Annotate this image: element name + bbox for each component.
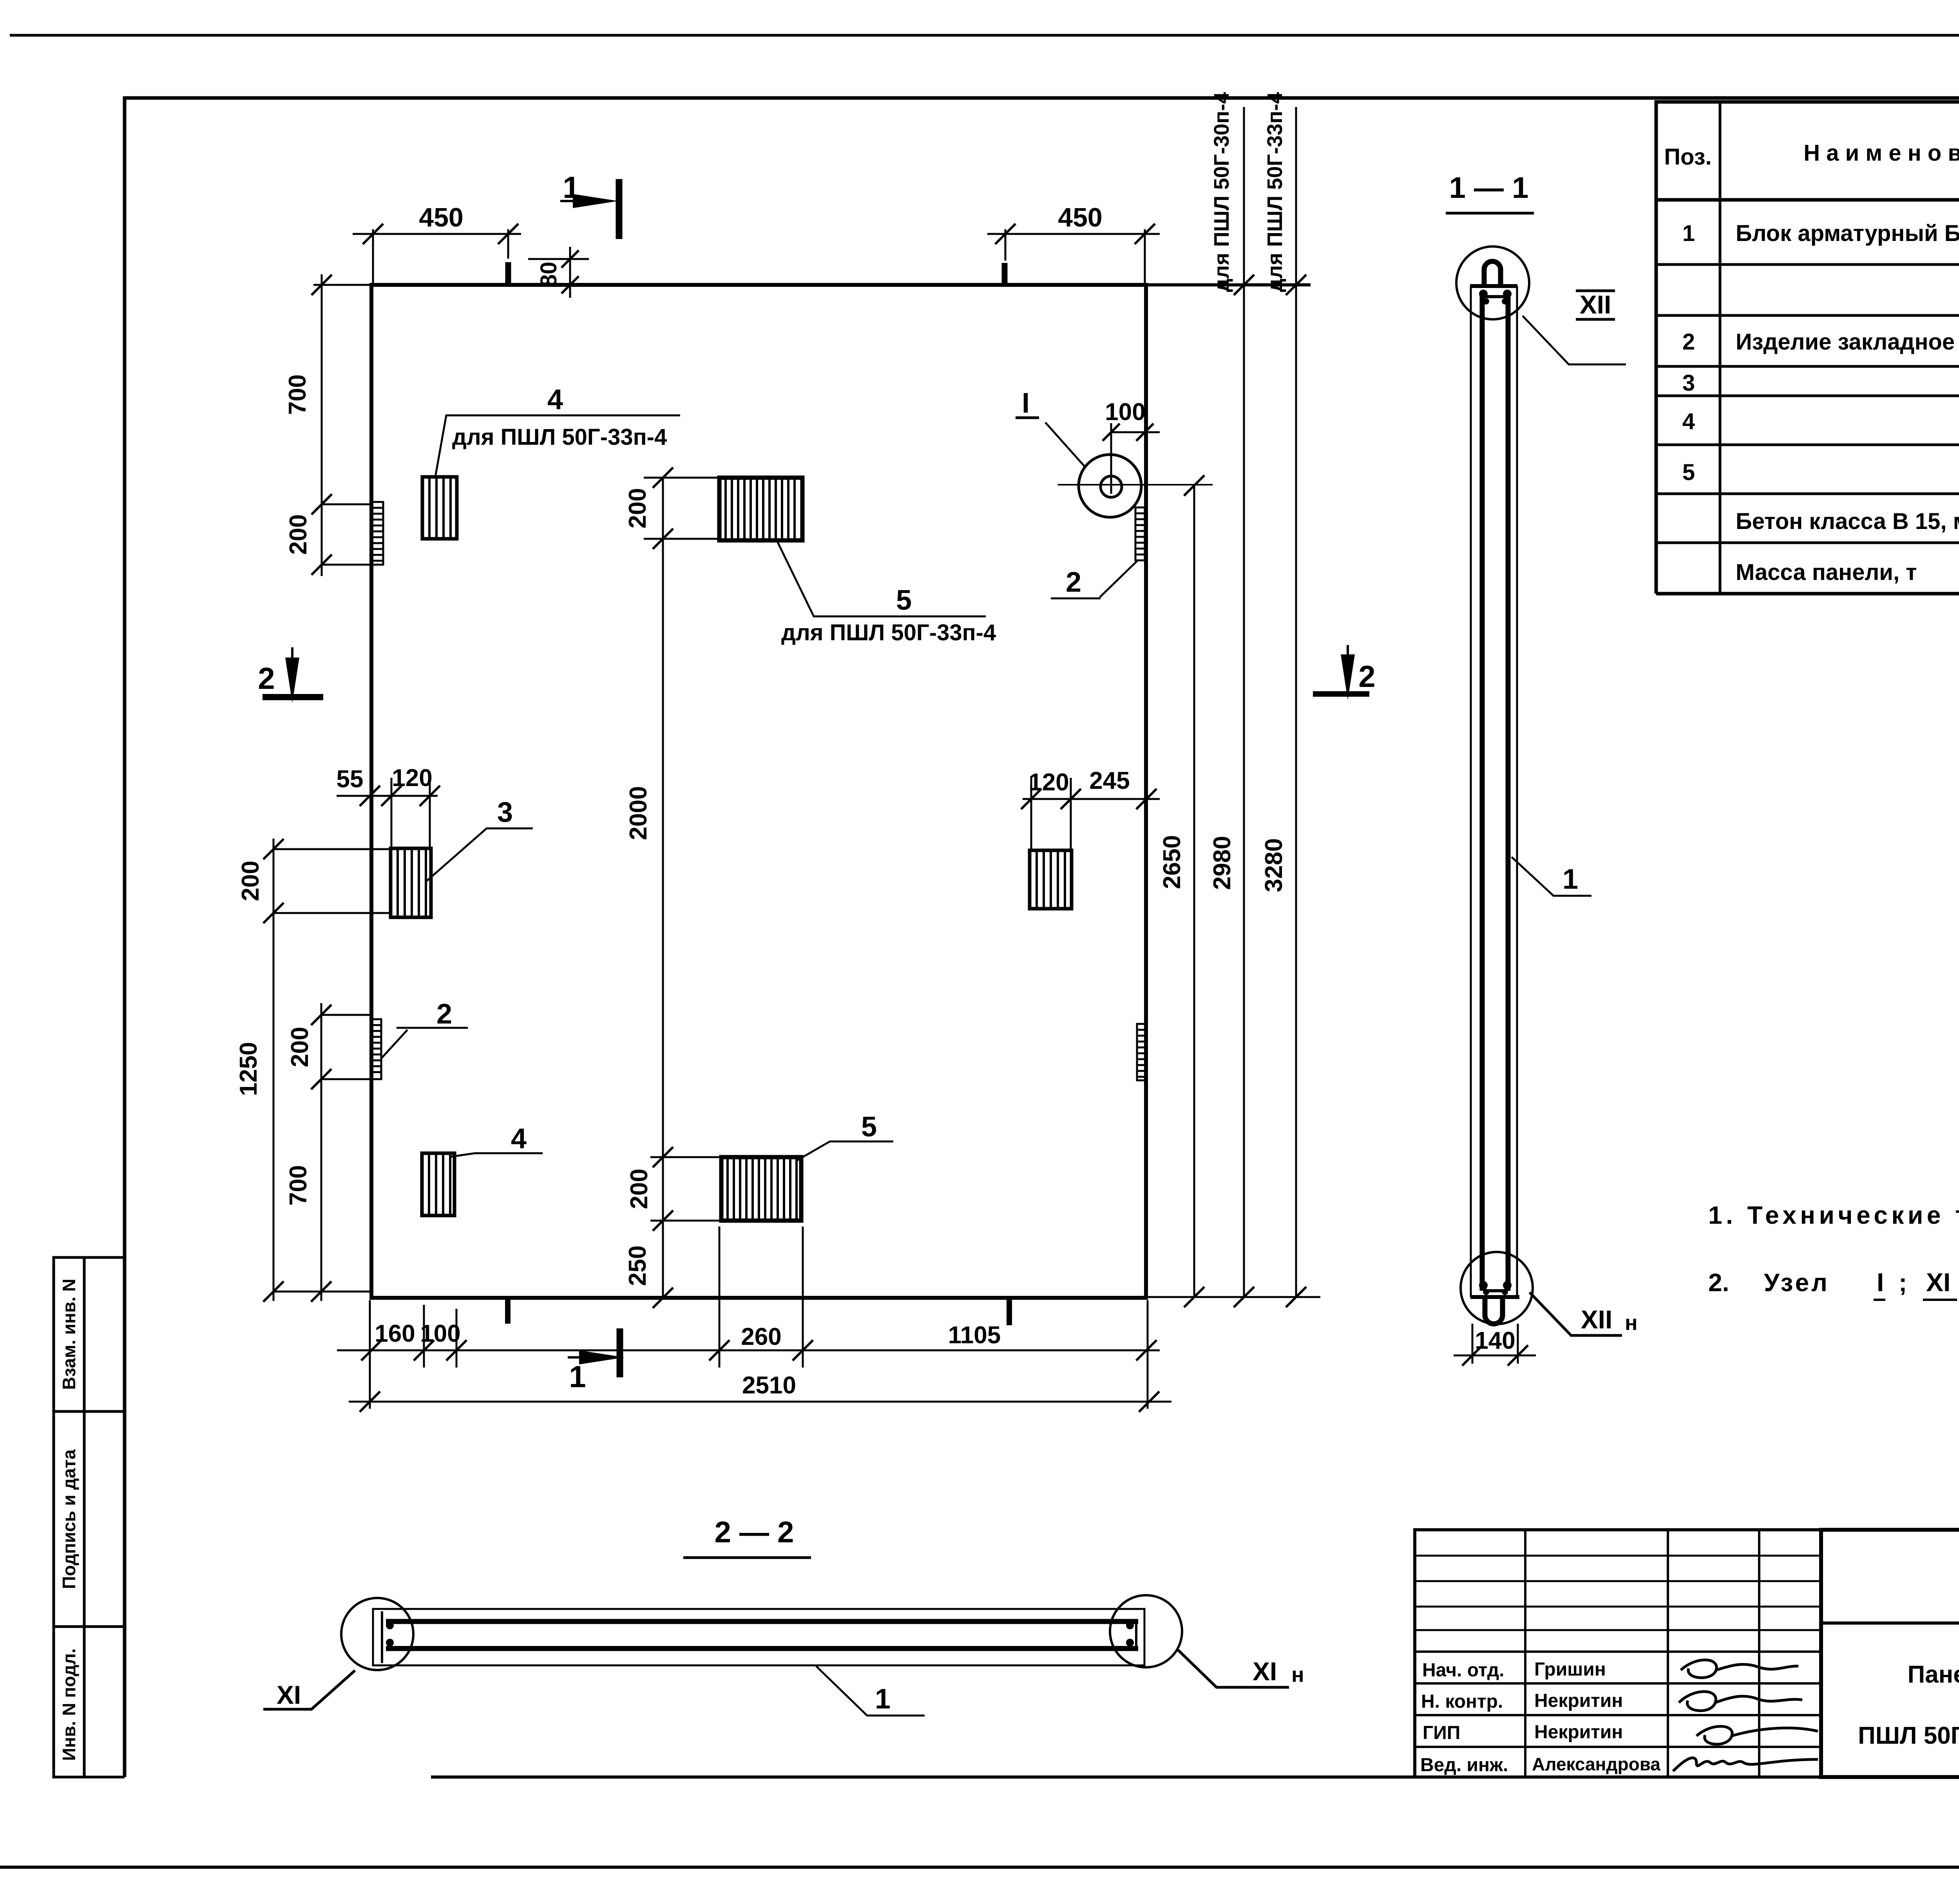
embedded plate MH1 strip (upper right edge, poz.2) (1135, 507, 1145, 560)
embedded plate MH4 (upper left, poz.4) (422, 477, 457, 539)
svg-text:200: 200 (286, 1027, 313, 1067)
svg-text:Нач. отд.: Нач. отд. (1422, 1660, 1505, 1681)
svg-text:4: 4 (1682, 409, 1695, 434)
lifting loop mark top-right (1002, 263, 1008, 285)
svg-text:Подпись и дата: Подпись и дата (59, 1449, 79, 1589)
svg-text:Изделие закладное МН 1: Изделие закладное МН 1 (1736, 329, 1959, 355)
svg-text:200: 200 (285, 514, 312, 554)
dimension 450 right, top (987, 233, 1160, 235)
svg-text:700: 700 (284, 374, 311, 415)
svg-text:100: 100 (1105, 399, 1145, 426)
svg-text:2510: 2510 (742, 1372, 796, 1399)
hole circle detail I (1079, 455, 1141, 517)
dimension 80 (loop above edge) (528, 258, 589, 260)
svg-text:3: 3 (497, 797, 513, 828)
svg-text:450: 450 (1058, 203, 1102, 232)
section 2-2 right end ties (1135, 1621, 1137, 1649)
svg-text:1: 1 (875, 1683, 891, 1715)
svg-text:100: 100 (420, 1320, 460, 1347)
section 1-1 lifting loop top (1484, 261, 1501, 286)
svg-text:I: I (1877, 1268, 1884, 1297)
variant line для ПШЛ 50Г-30п-4 (1243, 107, 1245, 1297)
svg-text:3: 3 (1682, 370, 1695, 396)
top edge extension to variant lines (1146, 283, 1311, 286)
node label XI-n (1178, 1650, 1289, 1687)
leader poz.1 on section 2-2 (816, 1666, 925, 1716)
dim 100 at hole (1110, 423, 1112, 494)
svg-text:;: ; (1899, 1268, 1907, 1297)
title block divider below doc number (1821, 1621, 1959, 1625)
svg-text:XI: XI (1253, 1657, 1277, 1686)
svg-text:4: 4 (547, 384, 563, 415)
svg-text:2: 2 (1066, 567, 1081, 598)
svg-text:Некритин: Некритин (1534, 1690, 1623, 1711)
svg-text:Гришин: Гришин (1534, 1659, 1606, 1680)
section mark 1 top (616, 179, 623, 239)
leader poz.2 lower left (382, 1028, 468, 1058)
svg-text:XII: XII (1580, 290, 1611, 319)
sheet top edge line (10, 34, 1959, 37)
node label XII (1523, 316, 1626, 364)
section 2-2 reinforcement lines (386, 1619, 1138, 1624)
svg-text:2: 2 (258, 661, 275, 696)
parts table frame (1656, 102, 1959, 594)
leader poz.2 upper right (1051, 560, 1138, 598)
section 2-2 left end ties (381, 1611, 383, 1663)
svg-text:200: 200 (624, 488, 651, 528)
section 1-1 panel top edge (1470, 284, 1517, 288)
embedded plate MH1 strip (lower left edge, poz.2) (372, 1019, 381, 1079)
section 1-1 detail circle XII top (1456, 246, 1529, 319)
embedded plate MH8 (upper middle, poz.5) (719, 478, 802, 540)
svg-text:Бетон класса В 15, м3: Бетон класса В 15, м3 (1736, 504, 1959, 534)
leader poz.1 on section 1-1 (1512, 857, 1591, 896)
dim chain middle vertical: 200 / 2000 / 200 / 250 (662, 478, 664, 1298)
svg-text:ГИП: ГИП (1423, 1723, 1460, 1743)
section 1-1 detail circle XII-n bottom (1461, 1252, 1533, 1324)
leader poz.5 upper with note (777, 542, 986, 616)
detail circle XI left (341, 1598, 413, 1670)
node label I (1045, 422, 1085, 466)
table verticals (1719, 102, 1722, 594)
svg-text:2000: 2000 (625, 786, 652, 840)
section mark 1 bottom (617, 1328, 623, 1377)
embedded plate MH1 strip (upper left edge, poz.2) (372, 502, 383, 565)
embedded plate MH3 (mid left, poz.3) (391, 848, 431, 917)
dim 120 / 245 right (1023, 798, 1160, 800)
section 2-2 slab outline (373, 1609, 1144, 1665)
svg-text:Взам. инв. N: Взам. инв. N (59, 1279, 79, 1390)
bottom dim row 2510 (349, 1401, 1171, 1403)
bottom dim row 160/100/260/1105 (337, 1350, 1160, 1351)
svg-text:Н а и м е н о в а н и е: Н а и м е н о в а н и е (1803, 140, 1959, 166)
dim chain left lower: 200 / 1250 and 200 / 700 (273, 839, 275, 1301)
signatures squiggles (1681, 1660, 1798, 1678)
svg-text:4: 4 (511, 1123, 527, 1154)
svg-text:160: 160 (375, 1320, 415, 1347)
svg-text:1: 1 (569, 1359, 586, 1394)
section 1-1 top cross tie and bars (1483, 295, 1508, 298)
svg-text:Некритин: Некритин (1534, 1722, 1623, 1743)
bottom extension for tall dims (1146, 1296, 1320, 1298)
svg-text:для ПШЛ 50Г-33п-4: для ПШЛ 50Г-33п-4 (452, 424, 667, 450)
dimension 450 left, top (353, 233, 521, 235)
plan: panel outline 2510x3280 (371, 285, 1146, 1298)
signature table upper rows (1415, 1555, 1821, 1557)
leader poz.4 lower (451, 1153, 543, 1157)
svg-text:2: 2 (1682, 329, 1695, 355)
section 1-1 reinforcement block lines (1480, 297, 1485, 1291)
svg-text:2.: 2. (1708, 1268, 1729, 1297)
svg-text:Вед. инж.: Вед. инж. (1420, 1755, 1508, 1775)
svg-text:260: 260 (741, 1323, 781, 1350)
svg-text:XI: XI (277, 1680, 301, 1709)
svg-text:XI: XI (1926, 1268, 1950, 1297)
svg-text:1105: 1105 (948, 1322, 1001, 1349)
svg-text:Александрова: Александрова (1532, 1754, 1660, 1774)
svg-text:ПШЛ 50Г-30п-4; ПШЛ 50Г-33п-4: ПШЛ 50Г-30п-4; ПШЛ 50Г-33п-4 (1858, 1722, 1959, 1749)
section 1-1 panel outline (1470, 286, 1472, 1297)
signature table label rows (1415, 1650, 1821, 1653)
svg-text:н: н (1625, 1311, 1638, 1335)
left margin stamp boxes (54, 1257, 125, 1777)
leader poz.3 left (426, 828, 533, 881)
svg-text:5: 5 (896, 585, 912, 616)
svg-text:120: 120 (392, 764, 432, 792)
leader poz.5 lower (797, 1141, 893, 1161)
svg-text:3280: 3280 (1260, 838, 1287, 892)
svg-text:н: н (1291, 1663, 1304, 1687)
svg-text:Узел: Узел (1764, 1268, 1830, 1297)
embedded plate MH4 (lower left, poz.4) (422, 1153, 454, 1216)
svg-text:Инв. N подл.: Инв. N подл. (59, 1648, 79, 1761)
svg-text:2: 2 (436, 998, 452, 1030)
section 1-1 lifting loop bottom (1485, 1297, 1503, 1324)
dim 140 bottom of section 1-1 (1472, 1324, 1474, 1364)
svg-text:5: 5 (861, 1111, 877, 1143)
section 1-1 bottom cross tie and bars (1483, 1289, 1508, 1292)
svg-text:Масса панели, т: Масса панели, т (1736, 560, 1917, 585)
title block outer frame (1821, 1530, 1959, 1777)
lifting loop mark bottom-left (505, 1298, 511, 1324)
svg-text:700: 700 (285, 1165, 312, 1205)
svg-text:1. Технические требования: 1. Технические требования см. 1.089.1 - … (1708, 1201, 1959, 1229)
dim chain left upper: 700 / 200 (321, 274, 323, 576)
svg-text:1: 1 (1562, 864, 1578, 895)
embedded plate MH3 (mid right, poz.3) (1030, 850, 1072, 909)
dim line 2650 (1193, 484, 1195, 1297)
svg-text:2 — 2: 2 — 2 (715, 1516, 794, 1549)
svg-text:1 — 1: 1 — 1 (1449, 171, 1529, 205)
embedded plate MH1 strip (lower right edge, poz.2) (1137, 1024, 1146, 1080)
svg-text:для ПШЛ 50Г-30п-4: для ПШЛ 50Г-30п-4 (1210, 92, 1233, 292)
svg-text:450: 450 (419, 203, 463, 232)
svg-text:XII: XII (1581, 1305, 1613, 1334)
svg-text:80: 80 (536, 262, 561, 287)
lifting loop mark top-left (505, 262, 511, 285)
svg-text:140: 140 (1475, 1327, 1515, 1354)
svg-text:Н. контр.: Н. контр. (1421, 1691, 1503, 1712)
svg-text:2650: 2650 (1159, 835, 1186, 889)
svg-text:120: 120 (1028, 769, 1069, 796)
svg-text:для ПШЛ 50Г-33п-4: для ПШЛ 50Г-33п-4 (1263, 92, 1287, 292)
node label XII-n (1530, 1292, 1622, 1335)
svg-text:1: 1 (1682, 221, 1695, 246)
svg-text:55: 55 (337, 766, 364, 793)
section 1-1 panel bottom edge (1470, 1295, 1519, 1299)
variant line для ПШЛ 50Г-33п-4 (1295, 107, 1297, 1297)
svg-text:Блок арматурный БА 51: Блок арматурный БА 51 (1736, 221, 1959, 246)
svg-text:Поз.: Поз. (1664, 144, 1711, 170)
node label XI (263, 1670, 355, 1709)
svg-text:2: 2 (1358, 659, 1375, 694)
svg-text:1: 1 (563, 170, 579, 205)
leader poz.4 upper with note (435, 415, 680, 477)
lifting loop mark bottom-right (1007, 1298, 1012, 1325)
svg-text:2980: 2980 (1209, 836, 1236, 890)
svg-text:200: 200 (626, 1168, 653, 1209)
svg-text:250: 250 (624, 1245, 651, 1286)
embedded plate MH8 (lower middle, poz.5) (721, 1157, 801, 1221)
svg-text:200: 200 (237, 861, 264, 901)
svg-text:1250: 1250 (235, 1042, 262, 1096)
detail circle XI-n right (1110, 1595, 1182, 1667)
signature table left part (1415, 1530, 1821, 1777)
dim 55 / 120 left (337, 795, 438, 797)
svg-text:5: 5 (1682, 460, 1695, 485)
sheet bottom edge line (0, 1866, 1959, 1869)
svg-text:Панель шахты лифта: Панель шахты лифта (1908, 1661, 1959, 1688)
svg-text:для ПШЛ 50Г-33п-4: для ПШЛ 50Г-33п-4 (781, 620, 996, 645)
svg-text:I: I (1022, 388, 1030, 419)
svg-text:245: 245 (1089, 767, 1130, 794)
